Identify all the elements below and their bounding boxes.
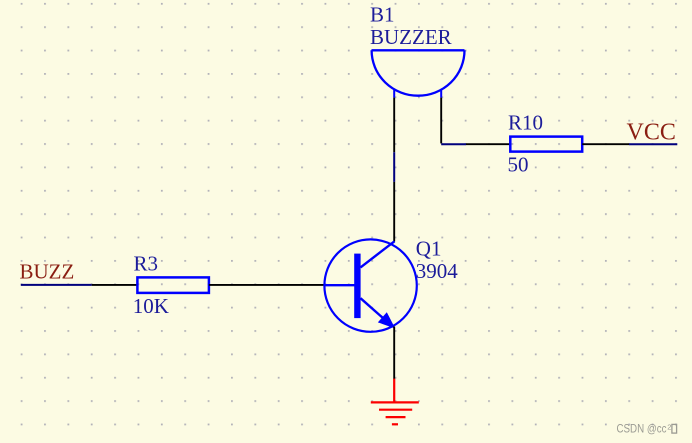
svg-text:B1: B1 [370, 3, 395, 27]
transistor Q1 [324, 239, 416, 331]
svg-text:Q1: Q1 [416, 236, 442, 260]
buzzer pin 1 stub [393, 89, 395, 97]
buzzer pin 2 stub [440, 90, 442, 98]
svg-text:50: 50 [508, 153, 529, 177]
wire corner navy segment [441, 143, 466, 145]
wire R10 right black [582, 143, 629, 145]
wire Q1 emitter down [393, 327, 395, 380]
svg-text:R10: R10 [508, 111, 543, 135]
wire buzzer left pin black upper [393, 98, 395, 153]
resistor R10 [510, 137, 582, 152]
ground [371, 379, 419, 425]
wire black BUZZ to R3 [92, 284, 138, 286]
wire R3 to Q1 base [209, 284, 325, 286]
wire black to R10 left [466, 143, 510, 145]
svg-text:10K: 10K [133, 294, 169, 318]
watermark CSDN [617, 423, 677, 436]
svg-text:BUZZER: BUZZER [370, 25, 452, 49]
svg-text:VCC: VCC [627, 120, 676, 146]
wire buzzer right pin down [440, 98, 442, 144]
svg-text:2: 2 [667, 423, 671, 432]
wire black to Q1 collector [393, 182, 395, 242]
wire navy under BUZZ [21, 284, 92, 286]
resistor R3 [137, 277, 209, 293]
wire navy under VCC [629, 143, 677, 145]
svg-text:R3: R3 [134, 251, 159, 275]
svg-text:3904: 3904 [416, 259, 459, 283]
svg-text:BUZZ: BUZZ [20, 259, 75, 283]
wire navy mid segment [393, 152, 395, 182]
buzzer B1 [372, 50, 465, 95]
svg-text:CSDN @cc: CSDN @cc [617, 423, 667, 436]
